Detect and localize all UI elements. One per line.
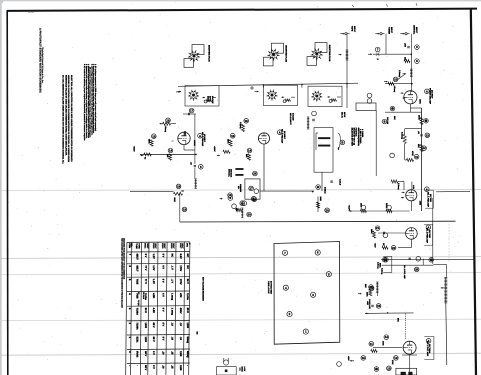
svg-text:ARROWS ON CONTROLS INDICATE CL: ARROWS ON CONTROLS INDICATE CLOCKWISE RO… (67, 75, 70, 162)
faint feed stub (448, 224, 450, 262)
output label box (396, 368, 417, 375)
svg-text:22: 22 (392, 246, 396, 250)
shorting plug socket J1 (192, 45, 204, 55)
svg-text:SECTION: SECTION (230, 169, 233, 178)
wire heater stub right (436, 190, 470, 192)
svg-text:1100: 1100 (179, 351, 182, 357)
svg-text:3. TUNER: 3. TUNER (361, 129, 364, 138)
svg-text:15K: 15K (360, 203, 363, 207)
resistor R14b 68K (247, 148, 252, 153)
layout tube 3 (311, 292, 316, 297)
svg-text:1.5meg: 1.5meg (393, 86, 396, 93)
svg-text:INPUT: INPUT (390, 27, 393, 34)
svg-text:.1 V: .1 V (170, 279, 173, 284)
svg-text:85 K: 85 K (186, 308, 189, 313)
svg-text:TP PIN #: TP PIN # (142, 292, 145, 299)
svg-text:OFF-ON: OFF-ON (386, 117, 389, 125)
svg-text:10: 10 (362, 356, 366, 360)
svg-text:17: 17 (190, 109, 194, 113)
label V2B (426, 225, 431, 230)
refs 18 19 20 right channel pot (228, 193, 233, 198)
AC interlock plug (217, 367, 237, 375)
svg-text:DC COIL RESISTANCE VALUES UNDE: DC COIL RESISTANCE VALUES UNDER ONE OHM … (62, 75, 65, 165)
switch section box (314, 128, 333, 173)
scan streak 3 (0, 273, 481, 275)
resistor +165V feed b (223, 150, 230, 153)
svg-text:6EU7: 6EU7 (135, 265, 138, 272)
capacitor C5 .02 (194, 165, 196, 167)
wires around V4 (373, 347, 402, 349)
resistor R22 1K cathode (391, 245, 396, 250)
shorting plug socket J2 (272, 43, 284, 53)
svg-text:B: B (383, 120, 385, 124)
control bracket R17 (384, 257, 389, 262)
page border left (6, 10, 9, 375)
svg-text:1M: 1M (404, 57, 407, 60)
svg-text:+165V: +165V (213, 146, 216, 152)
svg-text:NC: NC (186, 254, 189, 258)
svg-text:B: B (341, 141, 343, 145)
svg-text:5V4G: 5V4G (135, 351, 138, 357)
svg-text:13: 13 (231, 134, 235, 138)
svg-text:INPUT: INPUT (415, 27, 418, 34)
svg-text:17: 17 (249, 187, 253, 191)
svg-text:CABLE: CABLE (339, 179, 342, 186)
resistor R 1.5meg grid (391, 180, 398, 183)
resistor R12b 270K (394, 356, 399, 361)
svg-text:0 V: 0 V (161, 308, 164, 312)
svg-text:+16V: +16V (347, 356, 350, 361)
scan streak 1 (0, 189, 481, 192)
wire V1A plate down (409, 104, 411, 112)
svg-text:11: 11 (370, 342, 373, 346)
svg-text:180K: 180K (319, 197, 322, 202)
resistor +165V feed (140, 153, 196, 155)
svg-text:EZ81: EZ81 (135, 337, 138, 343)
svg-text:1100: 1100 (179, 365, 182, 371)
svg-text:7189A: 7189A (135, 323, 138, 330)
mic jack contacts box 3 (328, 96, 331, 98)
label V1B (425, 187, 430, 192)
mic jack contacts box 2 (282, 96, 285, 98)
svg-text:0 V: 0 V (144, 254, 147, 258)
crystal input jack (405, 33, 407, 35)
svg-text:14: 14 (385, 335, 389, 339)
svg-text:INPUT: INPUT (353, 26, 356, 33)
svg-text:1. DC voltages measured at 100: 1. DC voltages measured at 1000 ohms per… (94, 64, 97, 132)
resistor R 220K (387, 205, 392, 210)
volume control R10 (410, 69, 412, 77)
layout tube 1 (303, 329, 308, 334)
tape input jack (345, 33, 347, 35)
wire pot to bus (179, 194, 181, 222)
resistor R14 470K (384, 335, 389, 340)
svg-text:SHIELD: SHIELD (324, 187, 327, 194)
heater bus wire (385, 111, 421, 113)
svg-text:680K: 680K (226, 139, 229, 144)
svg-text:5meg: 5meg (186, 337, 189, 344)
mic input socket V1 (185, 86, 219, 106)
output choke coil (445, 277, 447, 303)
wire V2B2 plate down (263, 144, 265, 191)
resistor R16a 1.5meg (166, 118, 171, 123)
svg-text:.1 V: .1 V (170, 265, 173, 270)
resistor R9 1M (415, 45, 420, 50)
tube V2B (406, 228, 418, 240)
svg-text:12: 12 (394, 356, 398, 360)
svg-text:SHAFT END. ALL CAPACITOR VALUE: SHAFT END. ALL CAPACITOR VALUES IN MFD U… (70, 75, 73, 162)
svg-text:SHORTING PLUG: SHORTING PLUG (208, 45, 211, 62)
svg-text:77 V: 77 V (144, 265, 147, 270)
switch wafer capacitor bars (318, 137, 330, 139)
layout tube 7 (282, 250, 287, 255)
svg-text:220K: 220K (385, 203, 388, 208)
layout tube 2 (287, 312, 292, 317)
resistor R18 56K (369, 286, 374, 291)
svg-text:14: 14 (169, 149, 173, 153)
resistor R13a 680K (152, 134, 157, 139)
svg-text:VOLT: VOLT (181, 243, 184, 249)
wire coupling row upper (381, 258, 474, 260)
svg-text:21: 21 (376, 226, 380, 230)
svg-text:13: 13 (152, 134, 156, 138)
svg-text:HUMMER: HUMMER (239, 184, 242, 193)
svg-text:0 V: 0 V (161, 323, 164, 327)
electrolytic on switch feed (307, 117, 309, 129)
svg-text:0 V: 0 V (161, 265, 164, 269)
wire tape input down (346, 35, 348, 108)
svg-text:7189A: 7189A (135, 308, 138, 315)
scan streak 2 (0, 257, 481, 259)
ref bottom edge b (337, 362, 342, 367)
svg-text:KEY VOLTAGE READINGS: KEY VOLTAGE READINGS (202, 277, 205, 301)
resistor R13b 680K (230, 133, 235, 138)
svg-text:82K: 82K (417, 144, 420, 148)
svg-text:1.5meg: 1.5meg (381, 268, 384, 274)
wire plate V2A down (183, 145, 185, 150)
svg-text:400V: 400V (179, 308, 182, 314)
ref R pin (390, 153, 395, 158)
jack pair right of sockets (367, 93, 372, 98)
svg-text:VOLT: VOLT (154, 243, 157, 249)
svg-text:SOCKET: SOCKET (291, 113, 294, 121)
svg-text:6.3V: 6.3V (179, 254, 182, 259)
label V1B bracket (425, 190, 433, 208)
svg-text:100K: 100K (370, 229, 373, 234)
plate row wire (351, 210, 410, 212)
svg-text:170V: 170V (179, 265, 182, 271)
svg-text:INPUT: INPUT (343, 112, 346, 118)
svg-text:1.5meg: 1.5meg (398, 70, 401, 78)
svg-text:66 V: 66 V (144, 365, 147, 370)
volume control R18a 500K (176, 184, 181, 189)
svg-text:7.6 (A): 7.6 (A) (137, 300, 140, 306)
input socket 2 (264, 85, 298, 105)
off-on switch B (382, 119, 387, 124)
wire coupling row (433, 263, 446, 265)
shorting plug socket J3 (315, 43, 327, 53)
svg-text:270K: 270K (391, 360, 394, 365)
svg-text:170V: 170V (179, 279, 182, 285)
scan streak 5 (0, 353, 481, 355)
svg-text:47K: 47K (179, 293, 182, 298)
capacitor C21 (375, 226, 380, 231)
svg-text:20: 20 (325, 208, 329, 212)
capacitor C17 coupling (183, 113, 196, 115)
svg-text:11.5m: 11.5m (186, 293, 189, 301)
svg-text:NC: NC (186, 265, 189, 269)
svg-text:-: - (128, 365, 132, 366)
parts table grid (126, 242, 127, 375)
svg-text:BOTTOM VIEW: BOTTOM VIEW (269, 281, 272, 294)
svg-text:1200: 1200 (186, 323, 189, 329)
svg-text:(A) 7189A: (A) 7189A (428, 344, 431, 354)
capacitor C13 .02 (425, 133, 430, 138)
svg-text:(A) 7025: (A) 7025 (428, 230, 431, 239)
wire tone row (365, 312, 414, 315)
svg-text:14: 14 (248, 149, 252, 153)
svg-text:100K: 100K (366, 292, 369, 297)
svg-text:36 V: 36 V (186, 279, 189, 284)
tube V4 output amplifier (403, 341, 416, 354)
svg-text:500K: 500K (173, 198, 176, 203)
layout tube A (315, 250, 320, 255)
tube V2B2 (258, 133, 269, 144)
svg-text:66 V: 66 V (144, 351, 147, 356)
coupling row refs (382, 258, 387, 263)
wire down right (445, 264, 447, 277)
svg-text:66 V: 66 V (152, 337, 155, 342)
svg-text:(A) 7025: (A) 7025 (429, 194, 432, 203)
tube V1A first AF amplifier (404, 91, 417, 104)
resistor R11 470K (414, 154, 419, 159)
svg-text:12: 12 (422, 146, 426, 150)
svg-text:80 K: 80 K (144, 308, 147, 313)
svg-text:*Trade Mark Howard W. Sams & C: *Trade Mark Howard W. Sams & Co., Inc. (41, 47, 44, 84)
svg-text:1.5meg: 1.5meg (397, 183, 400, 190)
svg-text:TYPE: TYPE (137, 243, 140, 249)
svg-text:26: 26 (253, 172, 257, 176)
svg-text:COUPLATE: COUPLATE (368, 299, 371, 310)
svg-text:1.2V: 1.2V (152, 254, 155, 259)
resistor R16b 1.5meg (244, 119, 249, 124)
hummer box (245, 179, 260, 199)
svg-text:13: 13 (387, 366, 391, 370)
svg-text:470K: 470K (411, 151, 414, 156)
svg-text:10: 10 (394, 78, 398, 82)
layout tube B (326, 272, 331, 277)
svg-text:(A) 6EU7: (A) 6EU7 (203, 134, 206, 142)
shield bus wire (260, 190, 314, 192)
svg-text:0 V: 0 V (152, 351, 155, 355)
page border top (7, 9, 477, 11)
plus marker (250, 87, 254, 89)
resistor R 3.3meg (403, 135, 406, 144)
svg-text:20: 20 (247, 213, 251, 217)
resistor R8 (415, 59, 420, 64)
input bus wire (373, 53, 411, 55)
resistor R11b (369, 342, 374, 347)
wire B+ vertical (432, 198, 434, 264)
capacitor C15 couplate (376, 304, 381, 309)
svg-text:19: 19 (183, 208, 187, 212)
svg-text:SHORTING PLUG: SHORTING PLUG (285, 45, 288, 62)
scan streak 4 (0, 319, 481, 320)
svg-text:25: 25 (415, 268, 419, 272)
svg-text:220K: 220K (419, 99, 422, 104)
svg-text:1000: 1000 (419, 201, 422, 205)
svg-text:1200: 1200 (144, 323, 147, 329)
svg-text:1.2V: 1.2V (152, 265, 155, 270)
input socket 3 (308, 86, 342, 106)
coil L1 on tape lead (346, 50, 348, 60)
svg-text:1.5meg: 1.5meg (239, 122, 242, 129)
label V1A (425, 89, 430, 94)
tube layout box (274, 242, 340, 345)
svg-text:0 V: 0 V (152, 365, 155, 369)
svg-text:1.2V: 1.2V (152, 279, 155, 284)
cluster near bus (220, 198, 223, 200)
volume pot coil (195, 179, 197, 189)
svg-text:18: 18 (177, 185, 181, 189)
label V2A (198, 133, 203, 138)
wire tuner input down (385, 34, 387, 55)
svg-text:(A) 6EU7: (A) 6EU7 (431, 90, 434, 99)
tube V1B second AF amplifier (406, 190, 417, 201)
svg-text:1.5meg: 1.5meg (164, 126, 167, 133)
ref 13b (387, 366, 392, 371)
mic jack contacts V1 box (203, 97, 206, 99)
svg-text:1200: 1200 (144, 337, 147, 343)
svg-text:NO. 2 OUT. AMP: NO. 2 OUT. AMP (403, 265, 406, 280)
svg-text:0 V: 0 V (161, 279, 164, 283)
resistor R 15K (361, 205, 366, 210)
wire crystal input down (410, 34, 412, 92)
resistor R10b (361, 356, 366, 361)
svg-text:680K: 680K (148, 139, 151, 144)
resistor R 100K (373, 231, 376, 238)
svg-text:+16V: +16V (374, 243, 377, 248)
long selector wire (375, 110, 377, 176)
svg-text:16: 16 (369, 285, 373, 289)
switch arm B (340, 140, 345, 145)
svg-text:+165V: +165V (133, 146, 136, 152)
wire socket row (178, 83, 358, 86)
resistor R7 1.5meg grid return (385, 83, 412, 85)
bottom right arrow (350, 360, 354, 362)
layout tube 4 (283, 285, 288, 290)
svg-text:VOLT: VOLT (163, 243, 166, 249)
svg-text:470K: 470K (381, 341, 384, 346)
resistor R16 100K (369, 285, 374, 290)
svg-text:100K: 100K (418, 115, 421, 120)
ground bus wire (180, 220, 456, 223)
svg-text:4.5K: 4.5K (152, 293, 155, 298)
svg-text:16: 16 (166, 118, 170, 122)
label V2B bracket (424, 225, 432, 246)
svg-text:13: 13 (426, 133, 430, 137)
svg-text:0 V: 0 V (161, 293, 164, 297)
svg-text:11: 11 (415, 155, 418, 159)
label V4 (426, 339, 431, 344)
left stub wire (130, 191, 174, 193)
mag input jack (368, 53, 372, 55)
svg-text:NO.: NO. (130, 243, 133, 247)
wire switch box to bus (321, 172, 323, 191)
svg-text:RESISTANCE VALUES IN OHMS UNLE: RESISTANCE VALUES IN OHMS UNLESS OTHERWI… (64, 75, 67, 156)
svg-text:16: 16 (245, 119, 249, 123)
svg-text:0 V: 0 V (161, 254, 164, 258)
label V4 bracket (424, 337, 434, 360)
svg-text:56K: 56K (364, 284, 367, 288)
svg-text:4.5K: 4.5K (152, 308, 155, 313)
resistor R12 82K (422, 146, 427, 151)
svg-text:VOLT: VOLT (146, 243, 149, 249)
tuner input jack (380, 33, 382, 35)
svg-text:(A) 6EU7: (A) 6EU7 (283, 131, 286, 139)
svg-text:5meg: 5meg (186, 351, 189, 358)
svg-text:AUDIO: AUDIO (193, 140, 196, 146)
label V2B2 (277, 130, 282, 135)
page border right (471, 8, 476, 375)
svg-text:VOLT: VOLT (172, 243, 175, 249)
svg-text:3.3meg: 3.3meg (401, 132, 404, 140)
svg-text:30K: 30K (393, 116, 396, 120)
tube V2A (178, 132, 190, 144)
resistor R14a 68K (168, 148, 173, 153)
svg-text:6EU7: 6EU7 (135, 254, 138, 261)
svg-text:SHORTING PLUG: SHORTING PLUG (328, 45, 331, 62)
svg-text:66 V: 66 V (152, 323, 155, 328)
resistor R-100K plate load (424, 118, 429, 123)
svg-text:56K: 56K (397, 318, 400, 322)
svg-text:77 V: 77 V (144, 279, 147, 284)
svg-text:555: 555 (196, 332, 199, 335)
svg-text:0 V: 0 V (161, 337, 164, 341)
svg-text:1 meg: 1 meg (170, 293, 173, 301)
svg-text:1 meg: 1 meg (170, 308, 173, 316)
svg-text:.02: .02 (189, 162, 192, 165)
svg-text:LOCK: LOCK (243, 367, 246, 373)
ref bottom edge a (374, 367, 379, 372)
svg-text:15: 15 (377, 304, 381, 308)
svg-text:7025: 7025 (135, 279, 138, 285)
capacitor C near V2B (383, 233, 388, 238)
dual cap stack C26 (235, 168, 243, 170)
svg-text:NC: NC (170, 254, 173, 258)
svg-text:X: X (171, 140, 175, 142)
